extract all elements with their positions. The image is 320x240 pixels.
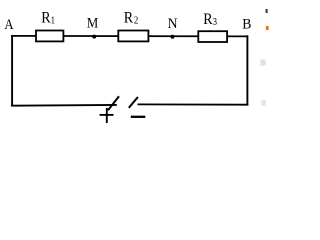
resistor R1 bbox=[36, 31, 63, 42]
edge artifact dots (scan noise) bbox=[266, 9, 268, 13]
resistor R2 bbox=[118, 31, 148, 42]
wire: bottom right segment from battery - plate bbox=[138, 103, 249, 105]
wire: right vertical from B down bbox=[246, 35, 248, 105]
svg-text:R3: R3 bbox=[203, 11, 217, 28]
battery positive plate (long, slanted) bbox=[108, 96, 119, 110]
resistor R3 bbox=[198, 31, 227, 42]
battery negative plate (short, slanted) bbox=[129, 97, 138, 108]
svg-text:N: N bbox=[168, 16, 178, 33]
svg-text:B: B bbox=[242, 16, 251, 33]
wire: bottom left segment to battery + plate bbox=[11, 104, 117, 107]
svg-text:M: M bbox=[87, 16, 98, 32]
battery plus sign bbox=[100, 114, 114, 116]
node M junction dot bbox=[92, 35, 96, 39]
wire: left vertical from A down bbox=[11, 35, 13, 107]
svg-text:R2: R2 bbox=[124, 10, 139, 27]
battery minus sign bbox=[131, 116, 146, 118]
node N junction dot bbox=[171, 35, 175, 39]
svg-text:R1: R1 bbox=[41, 10, 55, 27]
wire: top horizontal A to B bbox=[11, 35, 248, 38]
svg-text:A: A bbox=[4, 16, 13, 32]
